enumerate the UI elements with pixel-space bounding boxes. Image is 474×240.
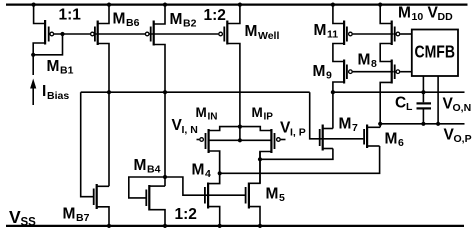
svg-text:M: M: [358, 52, 371, 69]
node MB4 gate-drain junction: [163, 175, 167, 179]
node MIP drain junction: [258, 157, 262, 161]
wire MB2 drain riser to MB4: [154, 45, 165, 187]
svg-text:B1: B1: [60, 65, 74, 77]
transistor M9: [343, 60, 348, 84]
wire MB7 gate riser: [81, 92, 93, 197]
node VSS-M4 junction: [218, 224, 222, 228]
node VDD-MWell junction: [238, 3, 242, 7]
label M8: [358, 52, 378, 71]
transistor M4: [204, 183, 209, 209]
label IBias: [42, 83, 69, 102]
transistor M11: [343, 21, 348, 46]
label MB7: [63, 206, 90, 225]
capacitor CL: [417, 102, 432, 124]
node MB1 gate junction: [60, 32, 64, 36]
bubble MB1 gate: [50, 32, 54, 36]
svg-text:1:2: 1:2: [204, 7, 226, 24]
transistor M6: [363, 125, 368, 149]
svg-text:M: M: [113, 11, 126, 28]
svg-text:O,N: O,N: [453, 102, 472, 114]
svg-text:I: I: [42, 83, 46, 100]
bubble MB2 gate: [145, 32, 149, 36]
svg-text:M: M: [385, 131, 398, 148]
svg-text:11: 11: [327, 29, 338, 41]
wire MWell drain tail riser to input pair: [228, 44, 240, 141]
node bias bus MB2-MB4 riser junction: [163, 90, 167, 94]
label VOP: [444, 127, 472, 146]
wire M6 source lead: [367, 145, 380, 147]
svg-text:1:1: 1:1: [59, 7, 82, 24]
label MIP: [252, 105, 274, 123]
wire M9 drain to VON node: [333, 82, 344, 129]
bubble MIP gate: [277, 138, 281, 142]
svg-text:CMFB: CMFB: [415, 42, 456, 62]
wire input pair common source: [209, 127, 272, 131]
wire CMFB pin2 to VOP: [437, 76, 439, 124]
transistor M7: [319, 125, 324, 151]
VSS label: [9, 207, 36, 229]
svg-text:B4: B4: [147, 164, 161, 176]
label MB6: [113, 11, 140, 30]
wire MB1 diode connection drain-to-gate: [33, 34, 62, 55]
label VI,P: [280, 120, 306, 139]
svg-text:IN: IN: [208, 112, 218, 123]
wire M4 source to VSS: [208, 207, 220, 226]
wire M4-M5 gate bias from MB4: [165, 177, 245, 195]
label MB4: [134, 157, 161, 176]
svg-text:5: 5: [279, 192, 285, 204]
svg-text:M: M: [398, 5, 411, 22]
svg-text:M: M: [245, 23, 258, 40]
wire input pair bulk tie: [209, 139, 272, 141]
wire PMOS gate bus MB1-MB6-MB2-MWell: [54, 33, 218, 35]
svg-text:M: M: [252, 105, 263, 120]
bubble MIN gate: [200, 138, 204, 142]
CMFB block: [412, 30, 458, 77]
bubble MB6 gate: [91, 32, 95, 36]
node VON cap junction: [421, 90, 425, 94]
wire MB6 source to VDD: [98, 5, 109, 24]
transistor MIN input: [205, 129, 210, 153]
svg-text:I, P: I, P: [290, 127, 306, 139]
transistor M10: [391, 21, 396, 46]
svg-text:C: C: [395, 95, 406, 112]
label M9: [313, 63, 333, 82]
svg-text:M: M: [134, 157, 147, 174]
transistor MB4: [145, 185, 150, 211]
wire M8 drain to VOP node: [380, 82, 391, 127]
node VOP M8-M6 junction: [378, 122, 382, 126]
wire M7-M6 gate bias riser: [310, 92, 364, 139]
svg-text:IP: IP: [264, 112, 274, 123]
node tail-bulk junction: [238, 138, 242, 142]
svg-text:10: 10: [412, 11, 424, 23]
label CL: [395, 95, 413, 114]
wire MIN gate stub: [197, 139, 200, 141]
wire M9-M8 gate bus: [353, 71, 394, 73]
svg-text:L: L: [406, 101, 413, 113]
wire M11 source to VDD: [333, 5, 344, 24]
svg-text:Well: Well: [258, 30, 279, 42]
svg-text:M: M: [192, 162, 205, 179]
node MB1 drain junction: [31, 53, 35, 57]
svg-text:M: M: [196, 105, 207, 120]
node VOP cap junction: [421, 122, 425, 126]
wire M4 drain to M6 source: [220, 146, 380, 173]
svg-text:Bias: Bias: [47, 90, 69, 102]
label MB1: [47, 58, 74, 77]
node VSS-M5 junction: [258, 224, 262, 228]
label M7: [339, 116, 359, 135]
svg-text:8: 8: [371, 58, 377, 70]
wire CMFB pin1 to VON: [422, 76, 424, 102]
svg-text:B7: B7: [76, 212, 90, 224]
node bias bus MB6 drain junction: [107, 90, 111, 94]
label M10: [398, 5, 423, 24]
node tail-source junction: [238, 125, 242, 129]
svg-text:M: M: [63, 206, 76, 223]
VDD rail: [6, 3, 468, 5]
wire MB2 source to VDD: [154, 5, 165, 24]
node M4 drain junction: [218, 171, 222, 175]
node VON M9-M7 junction: [331, 90, 335, 94]
svg-text:7: 7: [352, 122, 358, 134]
wire MIP gate stub: [281, 139, 286, 141]
svg-text:M: M: [314, 22, 327, 39]
svg-text:I, N: I, N: [182, 124, 198, 136]
svg-text:M: M: [266, 186, 279, 203]
node VSS-MB7 junction: [107, 224, 111, 228]
wire M4 drain riser to MIN: [208, 151, 220, 184]
svg-text:6: 6: [398, 137, 404, 149]
wire M10 gate to CMFB: [400, 33, 412, 35]
label M5: [266, 186, 286, 205]
transistor MB1: [44, 20, 50, 45]
wire M8 gate to CMFB: [400, 71, 412, 73]
wire MB4 gate diode loop: [129, 177, 165, 198]
bubble M9 gate: [349, 70, 353, 74]
transistor M5: [245, 183, 250, 209]
wire M11-M9 cascode link: [333, 44, 344, 62]
label M4: [192, 162, 212, 181]
wire MB1 drain down: [33, 43, 44, 55]
node VSS-MB4 junction: [163, 224, 167, 228]
node VDD-MB1 junction: [31, 3, 35, 7]
wire M5 source to VSS: [249, 207, 260, 226]
wire M10 source to VDD: [380, 5, 391, 24]
wire MB6 drain to MB7 drain riser: [98, 44, 109, 187]
current source IBias arrow: [30, 79, 36, 106]
svg-text:4: 4: [205, 168, 211, 180]
svg-text:9: 9: [326, 70, 332, 82]
wire M6 drain lead: [367, 126, 380, 128]
wire MWell source to VDD: [228, 5, 240, 24]
transistor MB2: [150, 21, 155, 46]
node VDD-M10 junction: [378, 3, 382, 7]
svg-text:B6: B6: [126, 17, 140, 29]
wire MB7 drain lead: [97, 185, 109, 187]
label M11: [314, 22, 339, 41]
label MB2: [170, 11, 197, 30]
bubble M10 gate: [396, 32, 400, 36]
wire MIN drain down: [209, 151, 220, 184]
wire MB4 drain lead: [149, 185, 165, 187]
label VON: [443, 96, 472, 115]
svg-text:B2: B2: [183, 18, 197, 30]
svg-text:V: V: [9, 207, 21, 227]
label MWell: [245, 23, 280, 42]
wire VON output net: [333, 91, 465, 93]
VSS rail: [6, 225, 464, 227]
svg-text:DD: DD: [438, 11, 454, 23]
node VDD-MB2 junction: [163, 3, 167, 7]
label VI,N: [172, 117, 198, 136]
svg-text:SS: SS: [21, 217, 37, 229]
bubble MWell gate: [219, 32, 223, 36]
wire M10-M8 cascode link: [380, 44, 391, 62]
transistor M8: [391, 60, 396, 84]
wire MB1 source to VDD: [34, 5, 44, 24]
wire M5 drain riser to MIP: [249, 152, 260, 184]
wire MIP drain down: [260, 152, 271, 184]
svg-text:M: M: [313, 63, 326, 80]
node VDD-M11 junction: [331, 3, 335, 7]
transistor MB6: [94, 21, 99, 46]
node VDD-MB6 junction: [107, 3, 111, 7]
node VOP CMFB junction: [436, 122, 440, 126]
VDD label: [428, 5, 454, 24]
svg-text:M: M: [170, 11, 183, 28]
wire M7 drain lead: [323, 128, 333, 130]
svg-text:M: M: [339, 116, 352, 133]
svg-text:O,P: O,P: [454, 133, 472, 145]
svg-text:1:2: 1:2: [175, 206, 197, 223]
bubble M8 gate: [396, 70, 400, 74]
wire MIP drain to M7 source: [260, 149, 333, 160]
bubble M11 gate: [349, 32, 353, 36]
transistor MB7: [93, 184, 98, 209]
wire MB4 source to VSS: [149, 210, 165, 226]
svg-text:M: M: [47, 58, 60, 75]
label M6: [385, 131, 405, 150]
label MIN: [196, 105, 218, 123]
transistor MWell: [223, 21, 228, 45]
transistor MIP input: [270, 129, 275, 153]
wire NMOS bias bus: [81, 91, 310, 93]
wire M11-M10 gate bus: [353, 33, 394, 35]
wire VOP output net: [380, 123, 464, 125]
wire M7 source lead: [323, 148, 333, 150]
wire MB7 source to VSS: [97, 207, 109, 226]
wire IBias stub: [32, 55, 34, 75]
